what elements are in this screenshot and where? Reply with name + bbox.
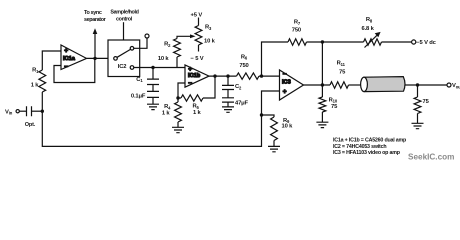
resistor R10 xyxy=(319,97,326,112)
svg-text:6.8 k: 6.8 k xyxy=(362,26,375,32)
node IC3 noninverting network xyxy=(260,113,263,116)
svg-text:R5: R5 xyxy=(193,104,200,110)
capacitor input coupling (Opt.) xyxy=(27,106,32,116)
svg-text:separator: separator xyxy=(84,17,107,23)
svg-text:Sample/hold: Sample/hold xyxy=(110,10,138,16)
wire R4 to ground xyxy=(177,122,179,127)
svg-text:SeekIC.com: SeekIC.com xyxy=(408,153,454,162)
terminal -5Vdc xyxy=(412,40,416,44)
wire bottom rail xyxy=(42,111,261,146)
svg-text:1 k: 1 k xyxy=(193,110,202,116)
wire +5V to R3 xyxy=(198,18,200,26)
wire IC1a feedback xyxy=(54,58,95,82)
svg-text:R7: R7 xyxy=(294,20,301,26)
resistor R6 xyxy=(237,73,260,79)
svg-text:− 5 V: − 5 V xyxy=(191,56,204,62)
wire R7 to R8 xyxy=(307,41,364,43)
op-amp U IC1a xyxy=(61,45,87,71)
resistor 75 ohm output termination xyxy=(414,97,421,114)
svg-text:R6: R6 xyxy=(241,54,248,60)
svg-text:control: control xyxy=(116,17,133,23)
node C2 xyxy=(226,74,229,77)
svg-text:−: − xyxy=(283,71,287,78)
wire R11 to coax xyxy=(349,84,362,86)
svg-text:−: − xyxy=(188,80,192,87)
arrowhead to sync separator xyxy=(93,28,98,34)
capacitor C1 0.1uF xyxy=(147,79,159,104)
wire sample/hold control xyxy=(123,22,125,40)
wire R9 to ground xyxy=(273,141,275,147)
svg-text:R11: R11 xyxy=(337,61,346,67)
wire output node down to R10 xyxy=(321,85,323,97)
svg-text:IC2 = 74HC4053 switch: IC2 = 74HC4053 switch xyxy=(333,144,386,150)
terminal Vin xyxy=(16,110,19,113)
node IC3 inverting input xyxy=(260,74,263,77)
switch IC2 pole contact xyxy=(114,57,118,61)
op-amp U IC1b xyxy=(185,65,209,87)
wire node to R9 xyxy=(262,115,275,117)
svg-text:IC1a: IC1a xyxy=(63,56,76,62)
ground R4 xyxy=(172,127,184,132)
resistor R11 xyxy=(330,82,349,88)
switch IC2 output contact xyxy=(130,66,134,70)
node IC1b output xyxy=(213,74,216,77)
resistor R9 xyxy=(271,117,278,141)
wire coax to Vout xyxy=(404,84,448,86)
switch IC2 throw contact xyxy=(130,47,134,51)
ground output termination xyxy=(412,123,424,128)
node C1 xyxy=(151,66,154,69)
coax cable xyxy=(361,77,405,92)
node feedback xyxy=(321,40,324,43)
wire inverting node up to R7 xyxy=(262,42,289,76)
wire R3 to -5V xyxy=(198,45,200,52)
svg-text:R1: R1 xyxy=(32,68,39,74)
node IC1b inverting xyxy=(176,96,179,99)
svg-text:+: + xyxy=(283,89,287,96)
wire node to R5 xyxy=(178,97,181,99)
wire to sync separator xyxy=(94,31,96,58)
svg-text:To sync: To sync xyxy=(84,10,102,16)
resistor R5 xyxy=(181,95,203,101)
svg-text:IC3 = HFA1103 video op amp: IC3 = HFA1103 video op amp xyxy=(333,150,401,156)
svg-text:75: 75 xyxy=(339,70,346,76)
svg-text:+: + xyxy=(188,66,192,73)
svg-text:R3: R3 xyxy=(205,25,212,31)
rheostat R8 xyxy=(364,39,382,45)
wire feedback node down to IC3 output xyxy=(321,42,323,85)
wire R6 to IC3 inverting input xyxy=(259,75,280,77)
svg-text:75: 75 xyxy=(331,104,338,110)
wire switch throw to open terminal xyxy=(134,38,147,48)
svg-text:R8: R8 xyxy=(366,17,373,23)
node Vout xyxy=(416,83,419,86)
svg-text:Opt.: Opt. xyxy=(25,122,36,128)
node input xyxy=(41,110,44,113)
ground C1 xyxy=(147,104,159,109)
svg-text:IC1a + IC1b = CA5260 dual amp: IC1a + IC1b = CA5260 dual amp xyxy=(333,138,407,144)
ground R10 xyxy=(316,122,328,127)
svg-text:R10: R10 xyxy=(329,97,338,103)
wire node to R4 xyxy=(177,98,179,102)
wire Vin to input cap xyxy=(19,110,26,112)
resistor R7 xyxy=(288,39,307,45)
op-amp U IC3 xyxy=(280,70,304,100)
svg-text:75: 75 xyxy=(423,99,430,105)
resistor R4 xyxy=(175,102,182,122)
wire IC1a output to IC2 xyxy=(87,57,109,59)
svg-text:−: − xyxy=(64,64,68,71)
wire 75 ohm resistor to ground xyxy=(417,114,419,124)
wire R2 bottom lead xyxy=(176,57,178,68)
svg-text:+: + xyxy=(64,48,68,55)
svg-text:+5 V: +5 V xyxy=(191,12,203,18)
wire IC1b inverting input xyxy=(178,83,185,98)
wire R8 to -5Vdc terminal xyxy=(382,41,412,43)
svg-text:C2: C2 xyxy=(235,84,242,90)
svg-text:10 k: 10 k xyxy=(204,38,216,44)
potentiometer R3 wiper arrowhead xyxy=(190,34,196,38)
svg-text:Vout: Vout xyxy=(452,83,460,89)
svg-text:750: 750 xyxy=(292,28,301,34)
svg-text:1 k: 1 k xyxy=(31,83,40,89)
svg-text:R4: R4 xyxy=(164,104,171,110)
svg-text:C1: C1 xyxy=(136,77,143,83)
svg-text:IC2: IC2 xyxy=(118,64,127,70)
svg-text:10 k: 10 k xyxy=(158,56,170,62)
node IC3 output xyxy=(321,83,324,86)
svg-text:−5 V dc: −5 V dc xyxy=(416,40,436,46)
potentiometer R3 xyxy=(195,26,202,46)
capacitor C2 47uF xyxy=(222,76,234,107)
node IC1a output xyxy=(93,57,96,60)
svg-text:IC3: IC3 xyxy=(282,79,291,85)
wire IC3 + input down xyxy=(262,91,280,115)
ground C2 xyxy=(222,107,234,112)
wire input cap to node xyxy=(32,110,43,112)
svg-text:1 k: 1 k xyxy=(162,111,171,117)
svg-text:10 k: 10 k xyxy=(282,124,294,130)
wire R2 top to R3 wiper xyxy=(177,36,190,38)
wire down to C1 xyxy=(152,68,154,80)
wire R10 to ground xyxy=(321,112,323,122)
switch IC2 arm xyxy=(117,49,130,57)
svg-text:Vin: Vin xyxy=(5,109,13,115)
wire R5 to IC1b output xyxy=(203,76,215,98)
resistor R1 xyxy=(39,70,46,92)
svg-text:47μF: 47μF xyxy=(235,101,249,107)
rheostat R8 arrow xyxy=(365,32,381,48)
wire node up to R1 xyxy=(41,92,43,111)
ground R9 xyxy=(268,146,280,151)
terminal Vout xyxy=(447,83,451,87)
svg-text:R2: R2 xyxy=(164,42,171,48)
svg-text:750: 750 xyxy=(239,63,248,69)
wire IC1b output to R6 xyxy=(209,75,237,77)
switch IC2 box xyxy=(108,40,140,77)
terminal switch open xyxy=(145,34,149,38)
svg-text:0.1μF: 0.1μF xyxy=(131,94,146,100)
resistor R2 xyxy=(174,39,181,58)
wire R1 to IC1a + input xyxy=(42,51,61,70)
wire IC2 output to IC1b + input xyxy=(134,67,185,69)
wire Vout node down to 75 ohm resistor xyxy=(417,85,419,97)
wire IC3 output to R11 xyxy=(304,84,331,86)
svg-text:IC1b: IC1b xyxy=(188,73,201,79)
